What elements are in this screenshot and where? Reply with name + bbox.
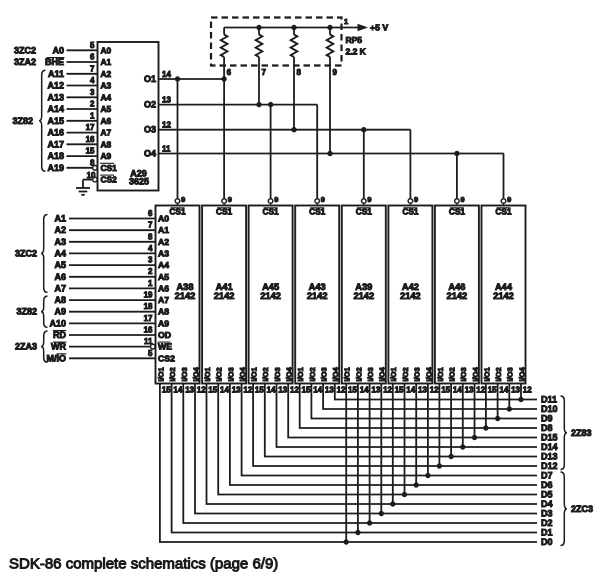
wire A44 I/O2 tap to D9 bbox=[497, 384, 499, 419]
svg-text:A14: A14 bbox=[47, 104, 64, 114]
decoder A29 internal pin label A8 bbox=[101, 139, 112, 149]
RAM A45 CS1 bubble pin 9 bbox=[268, 195, 278, 206]
svg-text:A2: A2 bbox=[101, 69, 112, 79]
node D14 bbox=[541, 442, 558, 452]
RAM A46 I/O pin labels bbox=[436, 366, 480, 381]
wire A38 I/O3 to D2 bus bbox=[183, 384, 537, 524]
svg-text:2.2 K: 2.2 K bbox=[346, 47, 367, 57]
svg-text:14: 14 bbox=[499, 385, 508, 394]
wire A46 I/O1 tap to D12 bbox=[438, 384, 440, 467]
svg-text:15: 15 bbox=[488, 385, 497, 394]
svg-text:13: 13 bbox=[162, 96, 171, 105]
wire A44 I/O3 tap to D10 bbox=[508, 384, 510, 410]
RAM A38 internal pin label A4 bbox=[158, 260, 169, 270]
svg-text:I/O2: I/O2 bbox=[448, 367, 457, 381]
ground bbox=[76, 188, 90, 195]
svg-text:I/O2: I/O2 bbox=[215, 367, 224, 381]
svg-text:A19: A19 bbox=[47, 163, 64, 173]
svg-text:I/O4: I/O4 bbox=[424, 366, 433, 381]
svg-text:2ZC3: 2ZC3 bbox=[571, 504, 593, 514]
junction A46 I/O2 on D13 bbox=[449, 454, 453, 458]
svg-text:1: 1 bbox=[148, 279, 153, 288]
node D2 bbox=[541, 518, 553, 528]
svg-text:D8: D8 bbox=[541, 423, 553, 433]
svg-text:15: 15 bbox=[208, 385, 217, 394]
decoder A29 internal pin label A2 bbox=[101, 69, 112, 79]
svg-text:I/O3: I/O3 bbox=[180, 367, 189, 381]
svg-text:17: 17 bbox=[86, 123, 95, 132]
svg-text:D10: D10 bbox=[541, 404, 558, 414]
junction A42 I/O3 on D6 bbox=[414, 483, 418, 487]
svg-text:D2: D2 bbox=[541, 518, 553, 528]
svg-text:I/O3: I/O3 bbox=[506, 367, 515, 381]
svg-text:A4: A4 bbox=[158, 260, 169, 270]
junction rail to RP5 R3 bbox=[292, 25, 296, 29]
svg-text:I/O3: I/O3 bbox=[273, 367, 282, 381]
RAM A38 CS1 bubble pin 9 bbox=[175, 195, 185, 206]
wire A44 I/O1 tap to D8 bbox=[485, 384, 487, 429]
wire input A5 to RAM pin 3 bbox=[54, 256, 155, 271]
wire CS1 select to A43 bbox=[316, 105, 318, 199]
decoder A29 output O2 pin 13 label bbox=[144, 96, 171, 110]
svg-text:A16: A16 bbox=[47, 128, 64, 138]
svg-text:I/O3: I/O3 bbox=[459, 367, 468, 381]
decoder A29 internal pin label CS2 bbox=[100, 175, 117, 185]
svg-text:14: 14 bbox=[453, 385, 462, 394]
svg-text:I/O4: I/O4 bbox=[238, 366, 247, 381]
junction A39 I/O4 on D3 bbox=[379, 511, 383, 515]
wire input A7 to RAM pin 1 bbox=[54, 279, 155, 294]
wire input A6 to RAM pin 2 bbox=[54, 267, 155, 282]
wire input A0 to A29 pin 5 bbox=[52, 41, 97, 56]
svg-text:CS2: CS2 bbox=[101, 175, 118, 185]
svg-text:9: 9 bbox=[367, 195, 371, 204]
wire input A11 to A29 pin 7 bbox=[48, 64, 98, 79]
RAM A45 I/O pin labels bbox=[250, 366, 294, 381]
svg-text:1: 1 bbox=[90, 111, 95, 120]
brace group RD WR M/IO bbox=[41, 331, 48, 362]
wire net O4 (A29 pin 11 to CS of A46,A44) bbox=[159, 153, 504, 155]
node D3 bbox=[541, 509, 553, 519]
wire input BHE to A29 pin 6 bbox=[45, 53, 98, 68]
junction O2 to RP5 pin7 bbox=[257, 102, 261, 106]
svg-text:I/O1: I/O1 bbox=[389, 367, 398, 381]
svg-text:+5 V: +5 V bbox=[370, 23, 388, 33]
svg-text:I/O3: I/O3 bbox=[226, 367, 235, 381]
RAM A45 I/O pin numbers 15 14 13 12 bbox=[255, 385, 300, 394]
svg-text:I/O3: I/O3 bbox=[320, 367, 329, 381]
RAM A42 CS1 bubble pin 9 bbox=[408, 195, 418, 206]
svg-text:7: 7 bbox=[90, 64, 95, 73]
svg-text:7: 7 bbox=[262, 68, 267, 77]
svg-text:D1: D1 bbox=[541, 528, 553, 538]
svg-text:3: 3 bbox=[90, 88, 95, 97]
svg-text:1: 1 bbox=[344, 17, 348, 26]
wire A46 I/O3 tap to D14 bbox=[462, 384, 464, 448]
wire input A10 to RAM pin 17 bbox=[49, 314, 155, 329]
svg-text:13: 13 bbox=[418, 385, 427, 394]
svg-text:BHE: BHE bbox=[45, 57, 64, 67]
svg-text:D7: D7 bbox=[541, 471, 553, 481]
svg-text:A1: A1 bbox=[158, 225, 169, 235]
svg-text:17: 17 bbox=[144, 314, 153, 323]
RAM A43 I/O pin numbers 15 14 13 12 bbox=[302, 385, 347, 394]
node D6 bbox=[541, 480, 553, 490]
svg-text:9: 9 bbox=[333, 68, 338, 77]
svg-text:2142: 2142 bbox=[447, 291, 468, 301]
junction A46 I/O4 on D15 bbox=[472, 435, 476, 439]
wire input WR to RAM pin 11 bbox=[51, 337, 153, 352]
svg-text:15: 15 bbox=[255, 385, 264, 394]
svg-text:8: 8 bbox=[297, 68, 302, 77]
svg-text:15: 15 bbox=[395, 385, 404, 394]
svg-text:A4: A4 bbox=[54, 248, 66, 258]
RAM chip A38 2142 bbox=[156, 206, 200, 384]
decoder A29 internal pin label A5 bbox=[101, 104, 112, 114]
svg-text:D3: D3 bbox=[541, 509, 553, 519]
svg-text:3625: 3625 bbox=[129, 177, 149, 187]
svg-text:RD: RD bbox=[53, 330, 66, 340]
svg-text:I/O2: I/O2 bbox=[354, 367, 363, 381]
svg-text:A5: A5 bbox=[101, 104, 112, 114]
wire A39 I/O4 tap to D3 bbox=[380, 384, 382, 514]
svg-text:13: 13 bbox=[371, 385, 380, 394]
svg-text:2142: 2142 bbox=[353, 291, 374, 301]
svg-text:9: 9 bbox=[321, 195, 325, 204]
svg-text:12: 12 bbox=[476, 385, 485, 394]
svg-text:13: 13 bbox=[325, 385, 334, 394]
wire input A13 to A29 pin 3 bbox=[47, 88, 97, 103]
svg-text:A3: A3 bbox=[101, 81, 112, 91]
wire A46 I/O4 tap to D15 bbox=[474, 384, 476, 438]
svg-text:O3: O3 bbox=[144, 125, 156, 135]
junction O1 to A38 CS1 drop bbox=[175, 77, 179, 81]
RAM A42 I/O pin numbers 15 14 13 12 bbox=[395, 385, 440, 394]
net label 2ZC3 bbox=[571, 504, 593, 514]
wire input M/IO to RAM pin 5 bbox=[47, 349, 156, 364]
svg-text:WE: WE bbox=[158, 342, 172, 352]
svg-text:A0: A0 bbox=[158, 214, 169, 224]
svg-text:13: 13 bbox=[511, 385, 520, 394]
wire net O1 (A29 pin 14 to CS of A38,A41) bbox=[159, 78, 225, 80]
svg-text:A12: A12 bbox=[47, 81, 64, 91]
decoder A29 reference designator bbox=[129, 169, 149, 187]
wire A41 I/O2 to D5 bus bbox=[218, 384, 537, 495]
svg-text:I/O4: I/O4 bbox=[517, 366, 526, 381]
node D7 bbox=[541, 471, 553, 481]
wire A42 I/O1 tap to D4 bbox=[392, 384, 394, 505]
node D12 bbox=[541, 461, 558, 471]
svg-text:14: 14 bbox=[267, 385, 276, 394]
decoder A29 internal pin label A4 bbox=[101, 92, 112, 102]
svg-text:A7: A7 bbox=[158, 295, 169, 305]
svg-text:A2: A2 bbox=[54, 225, 66, 235]
RAM A38 internal pin label A9 bbox=[158, 318, 169, 328]
decoder A29 internal pin label A9 bbox=[101, 151, 112, 161]
wire +5V rail inside RP5 bbox=[224, 27, 363, 29]
svg-text:12: 12 bbox=[523, 385, 532, 394]
node D5 bbox=[541, 490, 553, 500]
wire A42 I/O2 tap to D5 bbox=[404, 384, 406, 495]
wire CS1 select to A45 bbox=[270, 105, 272, 199]
wire CS1 select to A42 bbox=[409, 130, 411, 199]
node D8 bbox=[541, 423, 553, 433]
svg-text:A17: A17 bbox=[47, 139, 64, 149]
RAM A41 I/O pin numbers 15 14 13 12 bbox=[208, 385, 253, 394]
RAM A38 internal pin label A7 bbox=[158, 295, 169, 305]
svg-text:A6: A6 bbox=[101, 116, 112, 126]
svg-text:I/O1: I/O1 bbox=[296, 367, 305, 381]
net label 3ZB2 (A8-A10) bbox=[16, 307, 37, 317]
svg-text:O2: O2 bbox=[144, 100, 156, 110]
svg-text:A6: A6 bbox=[158, 283, 169, 293]
decoder A29 CS1 input bubble pin 8 bbox=[93, 166, 98, 171]
svg-text:3Z82: 3Z82 bbox=[12, 116, 33, 126]
svg-text:A1: A1 bbox=[54, 214, 66, 224]
junction A46 I/O1 on D12 bbox=[437, 464, 441, 468]
svg-text:I/O2: I/O2 bbox=[308, 367, 317, 381]
RAM chip A39 2142 bbox=[342, 206, 386, 384]
decoder A29 internal pin label CS1 bbox=[100, 163, 117, 173]
svg-text:D4: D4 bbox=[541, 499, 553, 509]
svg-text:14: 14 bbox=[406, 385, 415, 394]
svg-text:14: 14 bbox=[173, 385, 182, 394]
junction A44 I/O1 on D8 bbox=[484, 426, 488, 430]
wire A39 I/O2 tap to D1 bbox=[357, 384, 359, 533]
wire A29 CS2 pin 10 bbox=[83, 171, 96, 188]
svg-text:D11: D11 bbox=[541, 395, 557, 405]
wire A44 I/O4 tap to D11 bbox=[520, 384, 522, 400]
RAM A41 I/O pin labels bbox=[203, 366, 247, 381]
wire A42 I/O3 tap to D6 bbox=[415, 384, 417, 486]
RAM A39 I/O pin numbers 15 14 13 12 bbox=[348, 385, 393, 394]
svg-text:I/O2: I/O2 bbox=[494, 367, 503, 381]
node D13 bbox=[541, 452, 558, 462]
svg-text:A10: A10 bbox=[49, 318, 66, 328]
svg-text:A5: A5 bbox=[158, 272, 169, 282]
node D1 bbox=[541, 528, 553, 538]
svg-text:I/O4: I/O4 bbox=[331, 366, 340, 381]
junction A39 I/O2 on D1 bbox=[356, 530, 360, 534]
wire input A15 to A29 pin 1 bbox=[47, 111, 97, 126]
svg-text:RP5: RP5 bbox=[346, 35, 363, 45]
svg-text:14: 14 bbox=[313, 385, 322, 394]
svg-text:12: 12 bbox=[243, 385, 252, 394]
svg-text:9: 9 bbox=[181, 195, 185, 204]
svg-text:12: 12 bbox=[197, 385, 206, 394]
svg-text:13: 13 bbox=[278, 385, 287, 394]
RAM A43 CS1 bubble pin 9 bbox=[315, 195, 325, 206]
junction O4 to RP5 pin9 bbox=[328, 151, 332, 155]
svg-text:D5: D5 bbox=[541, 490, 553, 500]
svg-text:A9: A9 bbox=[158, 318, 169, 328]
net label 3ZC2 (A0) bbox=[14, 45, 36, 55]
wire A39 I/O3 tap to D2 bbox=[369, 384, 371, 524]
resistor RP5 element 2 bbox=[256, 28, 263, 66]
RAM A46 CS1 bubble pin 9 bbox=[455, 195, 465, 206]
svg-text:I/O2: I/O2 bbox=[168, 367, 177, 381]
svg-text:A7: A7 bbox=[54, 283, 66, 293]
svg-text:14: 14 bbox=[360, 385, 369, 394]
wire A45 I/O4 to D15 bus bbox=[288, 384, 537, 438]
svg-text:D9: D9 bbox=[541, 414, 553, 424]
svg-text:A11: A11 bbox=[48, 69, 64, 79]
RAM A38 internal pin label A0 bbox=[158, 214, 169, 224]
junction rail to RP5 R4 bbox=[328, 25, 332, 29]
wire input A16 to A29 pin 17 bbox=[47, 123, 97, 138]
RP5 pin 6 label bbox=[227, 68, 232, 77]
svg-text:A7: A7 bbox=[101, 128, 112, 138]
wire input A12 to A29 pin 4 bbox=[47, 76, 97, 91]
wire RP5 pin7 to O2 bbox=[258, 66, 260, 105]
svg-text:3ZA2: 3ZA2 bbox=[14, 57, 36, 67]
junction O1 to RP5 pin6 / A41 CS1 column bbox=[222, 77, 226, 81]
resistor RP5 element 1 bbox=[221, 28, 228, 66]
wire A45 I/O3 to D14 bus bbox=[277, 384, 538, 448]
svg-text:A0: A0 bbox=[52, 45, 64, 55]
svg-text:12: 12 bbox=[337, 385, 346, 394]
RP5 pin 7 label bbox=[262, 68, 267, 77]
svg-text:A18: A18 bbox=[47, 151, 64, 161]
svg-text:M/IO: M/IO bbox=[47, 353, 67, 363]
wire A42 I/O4 tap to D7 bbox=[427, 384, 429, 476]
junction A42 I/O1 on D4 bbox=[391, 502, 395, 506]
wire A41 I/O1 to D4 bus bbox=[207, 384, 538, 505]
svg-text:A6: A6 bbox=[54, 272, 66, 282]
wire A41 I/O4 to D7 bus bbox=[242, 384, 537, 476]
brace group A8-A10 bbox=[41, 296, 48, 327]
svg-text:12: 12 bbox=[430, 385, 439, 394]
power +5V arrow bbox=[358, 25, 367, 31]
svg-text:11: 11 bbox=[162, 145, 171, 154]
svg-text:A15: A15 bbox=[47, 116, 64, 126]
wire input A8 to RAM pin 19 bbox=[54, 291, 155, 306]
RAM chip A44 2142 bbox=[482, 206, 526, 384]
svg-text:I/O1: I/O1 bbox=[203, 367, 212, 381]
svg-text:5: 5 bbox=[90, 41, 95, 50]
RAM A38 I/O pin labels bbox=[156, 366, 200, 381]
svg-text:2142: 2142 bbox=[260, 291, 281, 301]
wire A38 I/O1 to D0 bus bbox=[160, 384, 537, 543]
resistor RP5 element 4 bbox=[327, 28, 334, 66]
wire input A4 to RAM pin 4 bbox=[54, 244, 155, 259]
svg-text:I/O1: I/O1 bbox=[482, 367, 491, 381]
wire net O2 (A29 pin 13 to CS of A45,A43) bbox=[159, 104, 318, 106]
svg-text:2: 2 bbox=[90, 100, 95, 109]
svg-text:2142: 2142 bbox=[493, 291, 514, 301]
svg-text:9: 9 bbox=[507, 195, 511, 204]
wire A46 I/O2 tap to D13 bbox=[450, 384, 452, 457]
RAM A38 internal pin label CS2 bbox=[158, 353, 175, 363]
svg-text:13: 13 bbox=[465, 385, 474, 394]
wire input A18 to A29 pin 15 bbox=[47, 147, 97, 162]
RAM A44 I/O pin labels bbox=[482, 366, 526, 381]
svg-text:12: 12 bbox=[162, 121, 171, 130]
svg-text:9: 9 bbox=[461, 195, 465, 204]
brace group A1-A7 bbox=[41, 215, 48, 293]
svg-text:9: 9 bbox=[228, 195, 232, 204]
junction A39 I/O3 on D2 bbox=[367, 521, 371, 525]
RAM A41 CS1 bubble pin 9 bbox=[222, 195, 232, 206]
caption bbox=[9, 556, 278, 573]
decoder A29 output O1 pin 14 label bbox=[144, 70, 171, 84]
svg-text:14: 14 bbox=[220, 385, 229, 394]
RAM A43 I/O pin labels bbox=[296, 366, 340, 381]
RAM A38 I/O pin numbers 15 14 13 12 bbox=[162, 385, 206, 394]
svg-text:4: 4 bbox=[90, 76, 95, 85]
svg-text:6: 6 bbox=[90, 53, 95, 62]
RAM A39 CS1 bubble pin 9 bbox=[362, 195, 372, 206]
decoder A29 output O3 pin 12 label bbox=[144, 121, 171, 135]
decoder A29 internal pin label A3 bbox=[101, 81, 112, 91]
junction A42 I/O2 on D5 bbox=[402, 492, 406, 496]
wire RP5 pin9 to O4 bbox=[329, 66, 331, 154]
node D15 bbox=[541, 433, 558, 443]
decoder A29 internal pin label A7 bbox=[101, 128, 112, 138]
svg-text:4: 4 bbox=[148, 244, 153, 253]
wire CS1 select to A41 bbox=[223, 66, 225, 199]
node D9 bbox=[541, 414, 553, 424]
svg-text:15: 15 bbox=[441, 385, 450, 394]
RAM A38 internal pin label A3 bbox=[158, 248, 169, 258]
svg-text:2142: 2142 bbox=[175, 291, 196, 301]
RAM A38 internal pin label WE bbox=[158, 342, 173, 352]
svg-text:O4: O4 bbox=[144, 149, 156, 159]
resistor pack RP5 outline (dashed) bbox=[211, 18, 342, 66]
wire input A9 to RAM pin 18 bbox=[54, 302, 155, 317]
junction O4 to A46 CS1 drop bbox=[455, 151, 459, 155]
svg-text:A13: A13 bbox=[47, 92, 64, 102]
decoder A29 internal pin label A1 bbox=[101, 57, 112, 67]
wire A38 I/O4 to D3 bus bbox=[195, 384, 537, 514]
wire CS1 select to A39 bbox=[363, 130, 365, 199]
svg-text:19: 19 bbox=[144, 291, 153, 300]
svg-text:I/O1: I/O1 bbox=[250, 367, 259, 381]
wire input A19 to A29 pin 8 bbox=[47, 158, 95, 173]
node D0 bbox=[541, 537, 553, 547]
wire A43 I/O3 to D10 bus bbox=[323, 384, 537, 410]
svg-text:I/O4: I/O4 bbox=[378, 366, 387, 381]
svg-text:A8: A8 bbox=[54, 295, 66, 305]
RAM A38 internal pin label A2 bbox=[158, 237, 169, 247]
node D11 bbox=[541, 395, 557, 405]
svg-text:A9: A9 bbox=[54, 307, 66, 317]
wire A39 I/O1 tap to D0 bbox=[345, 384, 347, 543]
svg-text:D0: D0 bbox=[541, 537, 553, 547]
svg-text:15: 15 bbox=[348, 385, 357, 394]
RAM A38 internal pin label OD bbox=[158, 330, 171, 340]
svg-text:CS2: CS2 bbox=[158, 353, 175, 363]
wire CS1 select to A44 bbox=[503, 154, 505, 199]
RAM chip A46 2142 bbox=[435, 206, 479, 384]
RAM A38 internal pin label A1 bbox=[158, 225, 169, 235]
decoder A29 CS2 input bubble pin 10 bbox=[93, 177, 98, 182]
svg-text:6: 6 bbox=[227, 68, 232, 77]
junction A44 I/O2 on D9 bbox=[495, 416, 499, 420]
wire input A3 to RAM pin 8 bbox=[54, 232, 155, 247]
svg-text:I/O1: I/O1 bbox=[343, 367, 352, 381]
junction rail to RP5 R2 bbox=[257, 25, 261, 29]
RP5 pin 8 label bbox=[297, 68, 302, 77]
RAM chip A43 2142 bbox=[295, 206, 339, 384]
junction O3 to A39 CS1 drop bbox=[362, 128, 366, 132]
svg-text:13: 13 bbox=[185, 385, 194, 394]
svg-text:2Z83: 2Z83 bbox=[571, 428, 592, 438]
svg-text:I/O4: I/O4 bbox=[191, 366, 200, 381]
wire input A1 to RAM pin 6 bbox=[54, 209, 155, 224]
svg-text:I/O2: I/O2 bbox=[261, 367, 270, 381]
svg-text:OD: OD bbox=[158, 330, 171, 340]
